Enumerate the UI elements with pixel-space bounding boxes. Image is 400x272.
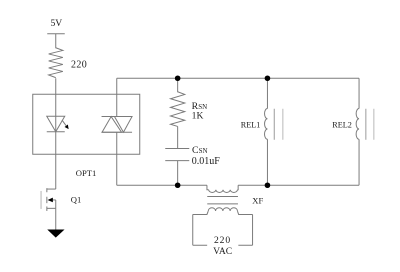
svg-text:220: 220	[214, 235, 231, 246]
svg-text:CSN: CSN	[192, 145, 208, 156]
wire LED anode inside box	[55, 94, 57, 132]
wire triac bottom down to bottom rail	[116, 132, 118, 185]
svg-text:OPT1: OPT1	[76, 168, 97, 178]
relay REL1 core line 1	[273, 109, 275, 140]
ground	[47, 230, 64, 238]
wire REL2 bottom	[358, 139, 360, 185]
transformer XF primary drop left	[207, 185, 209, 190]
wire LED to Q1 drain	[55, 154, 57, 189]
transistor Q1 bulk arrow	[52, 199, 56, 201]
triac bottom bar	[102, 131, 133, 133]
transformer XF secondary end right	[237, 211, 252, 214]
wire R220 to OPT1 box	[55, 78, 57, 94]
svg-text:Q1: Q1	[71, 194, 82, 204]
junction dot top REL1	[265, 75, 271, 81]
relay coil REL1	[265, 109, 268, 140]
resistor 220	[49, 48, 63, 78]
transformer XF primary drop right	[236, 185, 239, 190]
junction dot top RSN	[175, 75, 181, 81]
LED emission arrow	[62, 120, 66, 126]
transistor Q1 channel bar middle	[46, 197, 48, 203]
wire 5V bar to R 220	[55, 34, 57, 49]
optocoupler OPT1 box outline	[33, 94, 140, 154]
transformer XF secondary end left	[193, 211, 209, 214]
svg-text:1K: 1K	[192, 110, 204, 121]
transformer XF secondary winding	[208, 208, 237, 211]
resistor RSN	[171, 92, 185, 127]
svg-text:VAC: VAC	[213, 246, 232, 257]
svg-text:220: 220	[71, 60, 87, 71]
svg-text:REL2: REL2	[332, 121, 352, 130]
transistor Q1 gate plate	[40, 191, 42, 209]
svg-text:0.01uF: 0.01uF	[192, 156, 221, 167]
relay REL1 core line 2	[282, 109, 284, 140]
junction dot bottom CSN	[175, 182, 181, 188]
wire LED cathode down	[55, 132, 57, 155]
wire Q1 source to ground	[55, 208, 57, 229]
junction dot bottom REL1	[265, 182, 271, 188]
wire VAC bottom left	[193, 244, 207, 246]
transformer XF core line 2	[207, 203, 238, 205]
wire VAC bottom right	[238, 244, 252, 246]
wire REL1 bottom	[266, 139, 268, 185]
svg-text:XF: XF	[252, 195, 263, 205]
wire RSN to CSN	[177, 126, 179, 148]
triac triangle up	[102, 117, 122, 133]
wire CSN to bottom rail	[177, 161, 179, 186]
wire bottom rail right segment	[238, 184, 359, 186]
triac triangle down	[114, 117, 132, 133]
relay REL2 core line 2	[373, 109, 375, 140]
wire VAC loop left	[192, 214, 194, 245]
transistor Q1 source lead	[47, 207, 56, 209]
relay coil REL2	[356, 109, 359, 140]
svg-text:REL1: REL1	[241, 121, 261, 130]
svg-text:5V: 5V	[50, 18, 62, 29]
capacitor CSN bottom plate	[165, 160, 189, 162]
power +5V supply bar	[47, 33, 65, 35]
transistor Q1 channel bar top	[46, 188, 48, 192]
transformer XF core line 1	[207, 195, 238, 197]
transistor Q1 drain lead	[47, 188, 56, 190]
wire top rail	[117, 77, 359, 79]
capacitor CSN top plate	[165, 148, 189, 150]
LED diode of OPT1	[47, 116, 65, 132]
wire VAC loop right	[252, 214, 254, 245]
transformer XF primary winding	[209, 190, 238, 193]
wire RSN top	[177, 78, 179, 92]
relay REL2 core line 1	[365, 109, 367, 140]
wire REL1 top	[266, 78, 268, 108]
triac of OPT1 top bar	[102, 116, 133, 118]
transistor Q1 channel bar bottom	[46, 206, 48, 211]
wire top rail to triac	[116, 78, 118, 116]
wire REL2 top	[358, 78, 360, 108]
LED cathode bar	[47, 131, 65, 133]
wire bottom rail left segment	[117, 184, 207, 186]
